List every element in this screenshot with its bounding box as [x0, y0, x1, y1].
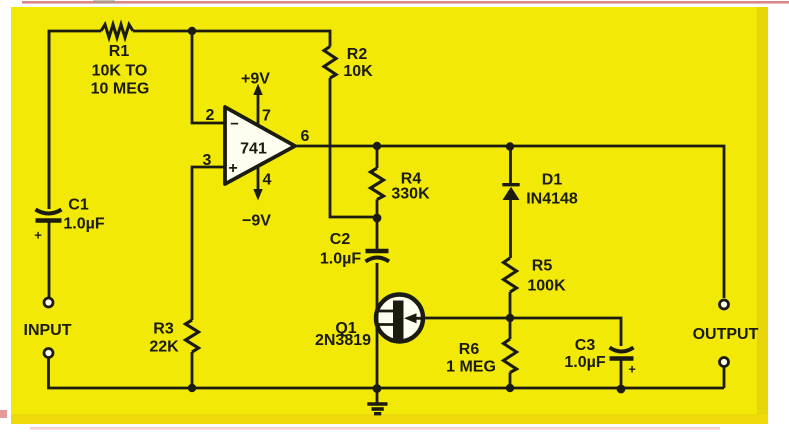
svg-text:6: 6 — [301, 128, 310, 145]
scan artifact black tick top — [93, 0, 115, 4]
resistor R2 — [324, 47, 336, 79]
svg-text:100K: 100K — [527, 278, 566, 295]
svg-text:2: 2 — [206, 107, 215, 124]
scan artifact pink bottom smear — [30, 427, 720, 430]
wire -9V supply arrow — [253, 166, 262, 201]
svg-text:10K TO: 10K TO — [92, 63, 148, 80]
svg-text:330K: 330K — [391, 186, 430, 203]
wire R4 top lead — [376, 146, 379, 168]
svg-text:1 MEG: 1 MEG — [446, 359, 496, 376]
wire output lower to bottom rail — [723, 367, 726, 389]
wire R6 bottom lead — [509, 373, 512, 389]
wire noninverting input — [192, 167, 225, 320]
svg-text:+: + — [34, 228, 42, 243]
wire C2 top lead — [376, 218, 379, 249]
wire gate line Q1 to C3 — [423, 318, 621, 346]
op-amp U1 741 — [225, 107, 295, 184]
node pin2 junction — [188, 27, 196, 35]
svg-text:C1: C1 — [68, 197, 89, 214]
svg-text:741: 741 — [240, 141, 267, 158]
svg-text:C3: C3 — [575, 337, 596, 354]
svg-text:+: + — [628, 362, 636, 377]
wire R4 bottom lead — [376, 200, 379, 219]
svg-text:2N3819: 2N3819 — [315, 332, 371, 349]
svg-text:10 MEG: 10 MEG — [91, 81, 150, 98]
wire D1 to R5 — [509, 200, 512, 258]
wire R6 top lead — [509, 318, 512, 339]
node R3 bottom rail junction — [188, 384, 196, 392]
wire +9V supply arrow — [253, 84, 262, 127]
wire inverting input — [192, 31, 225, 123]
svg-text:1.0µF: 1.0µF — [564, 354, 605, 371]
svg-text:1.0µF: 1.0µF — [320, 251, 361, 268]
wire top rail left segment — [49, 31, 101, 209]
svg-text:10K: 10K — [343, 63, 373, 80]
svg-text:7: 7 — [262, 108, 271, 125]
node C2 junction — [373, 214, 382, 223]
node D1 output junction — [506, 142, 514, 150]
wire C1 top lead — [48, 31, 51, 209]
wire op-amp output — [295, 146, 724, 298]
terminal output upper — [720, 300, 729, 309]
svg-text:4: 4 — [263, 172, 272, 189]
node gate R5 R6 junction — [506, 314, 514, 322]
svg-text:1.0µF: 1.0µF — [63, 216, 104, 233]
resistor R4 — [371, 168, 384, 200]
transistor Q1 2N3819 — [376, 295, 423, 342]
svg-text:−9V: −9V — [242, 213, 271, 230]
resistor R1 — [101, 25, 133, 38]
wire R5 bottom lead — [509, 292, 512, 318]
svg-text:−: − — [230, 116, 239, 133]
wire top rail right segment — [133, 31, 330, 47]
ground — [367, 388, 387, 414]
node ground rail junction — [373, 384, 382, 393]
svg-text:D1: D1 — [542, 172, 563, 189]
capacitor C1 — [36, 210, 62, 221]
svg-text:R5: R5 — [532, 258, 553, 275]
wire input lower to bottom rail — [49, 358, 193, 389]
wire R2 bottom crossover to C2 node — [330, 78, 373, 217]
node R6 bottom rail junction — [506, 384, 514, 392]
svg-text:R3: R3 — [153, 321, 174, 338]
wire R3 to ground rail — [191, 352, 194, 388]
wire bottom rail — [192, 387, 724, 390]
terminal input lower — [44, 349, 53, 358]
wire C1 to input terminal — [48, 222, 51, 298]
node R4 output junction — [373, 142, 381, 150]
svg-text:R6: R6 — [459, 341, 480, 358]
svg-text:R1: R1 — [109, 43, 130, 60]
svg-text:INPUT: INPUT — [24, 322, 72, 339]
svg-text:+: + — [228, 160, 237, 177]
node C3 bottom rail junction — [617, 385, 626, 394]
resistor R5 — [504, 258, 517, 292]
svg-text:22K: 22K — [149, 339, 179, 356]
terminal input upper — [44, 298, 53, 307]
svg-text:OUTPUT: OUTPUT — [693, 326, 759, 343]
scan artifact pink left mark — [0, 410, 7, 418]
svg-text:C2: C2 — [330, 231, 351, 248]
scan artifact pink top line — [22, 1, 789, 4]
capacitor C3 — [610, 348, 634, 359]
svg-text:3: 3 — [203, 152, 212, 169]
diode D1 — [502, 185, 519, 200]
wire C3 bottom lead — [620, 361, 623, 390]
terminal output lower — [720, 358, 729, 367]
svg-text:R2: R2 — [347, 46, 368, 63]
svg-text:IN4148: IN4148 — [526, 191, 578, 208]
capacitor C2 — [366, 251, 390, 262]
wire D1 top lead — [509, 146, 512, 184]
svg-text:+9V: +9V — [241, 71, 270, 88]
wire C2 to ground rail through Q1 — [376, 263, 379, 388]
resistor R3 — [186, 320, 199, 352]
resistor R6 — [504, 339, 517, 373]
